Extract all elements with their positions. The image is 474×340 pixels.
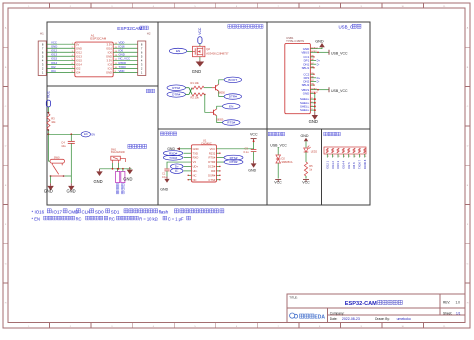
svg-text:SBU2: SBU2: [302, 83, 310, 87]
svg-text:IO13: IO13: [76, 54, 82, 58]
svg-text:10k: 10k: [51, 120, 56, 124]
svg-text:Date:: Date:: [330, 317, 338, 321]
svg-text:GND: GND: [192, 69, 201, 74]
svg-text:Drawn By:: Drawn By:: [375, 317, 390, 321]
svg-text:LED2: LED2: [311, 151, 318, 154]
svg-text:VCC: VCC: [47, 90, 51, 98]
svg-text:TYPE-C16PIN: TYPE-C16PIN: [286, 39, 304, 43]
svg-text:DTR#: DTR#: [229, 95, 237, 99]
svg-text:TXD: TXD: [193, 151, 198, 155]
svg-text:GND: GND: [160, 188, 168, 192]
svg-text:IO12 1: IO12 1: [325, 160, 329, 169]
svg-text:D-: D-: [317, 62, 320, 66]
svg-text:USB_VCC: USB_VCC: [331, 52, 348, 56]
svg-text:IO13 2: IO13 2: [331, 160, 335, 169]
svg-text:VCC: VCC: [250, 133, 258, 137]
svg-text:IO14 4: IO14 4: [342, 160, 346, 169]
svg-text:EN: EN: [229, 104, 233, 108]
svg-text:IO17: IO17: [52, 209, 62, 214]
svg-text:GND: GND: [315, 40, 324, 44]
svg-text:1/1: 1/1: [456, 311, 461, 315]
svg-text:TXD#: TXD#: [169, 156, 177, 160]
svg-text:VDD: VDD: [119, 69, 125, 73]
svg-text:G: G: [467, 263, 469, 265]
svg-text:UD+: UD+: [193, 165, 199, 169]
svg-text:TXD0 7: TXD0 7: [358, 159, 362, 169]
svg-text:GND: GND: [303, 91, 309, 95]
svg-text:Company:: Company:: [330, 311, 345, 315]
svg-text:DTR#: DTR#: [208, 160, 216, 164]
svg-text:umekoko: umekoko: [397, 317, 411, 321]
svg-text:GND: GND: [67, 189, 76, 194]
svg-text:ESP32CAM: ESP32CAM: [90, 37, 107, 41]
svg-text:DSR#: DSR#: [208, 173, 216, 177]
svg-text:TITLE:: TITLE:: [289, 296, 298, 300]
svg-text:G: G: [5, 263, 7, 265]
svg-text:GND: GND: [248, 168, 256, 172]
svg-text:IO12: IO12: [76, 50, 82, 54]
svg-text:IO15 3: IO15 3: [336, 160, 340, 169]
svg-text:IO0: IO0: [108, 50, 113, 54]
svg-text:VCC: VCC: [302, 181, 310, 185]
svg-text:IO4: IO4: [76, 71, 81, 75]
svg-text:3.3V: 3.3V: [106, 42, 112, 46]
svg-text:IO16: IO16: [106, 46, 112, 50]
svg-text:R3: R3: [51, 117, 55, 121]
svg-text:GND: GND: [301, 134, 309, 138]
svg-text:D+: D+: [175, 165, 179, 169]
svg-text:REV:: REV:: [443, 301, 450, 305]
svg-text:SD1: SD1: [111, 209, 120, 214]
svg-text:CTS#: CTS#: [208, 178, 215, 182]
svg-text:USB_VCC: USB_VCC: [331, 89, 348, 93]
svg-text:EN: EN: [176, 49, 180, 53]
svg-text:V3: V3: [193, 160, 197, 164]
svg-text:VCC: VCC: [210, 147, 216, 151]
svg-text:SBU1: SBU1: [302, 66, 310, 70]
svg-text:IO3: IO3: [108, 63, 113, 67]
svg-text:D-: D-: [175, 169, 178, 173]
svg-text:GND: GND: [106, 71, 112, 75]
svg-text:DTR#: DTR#: [229, 160, 237, 164]
svg-text:IO4 6: IO4 6: [352, 162, 356, 169]
svg-text:GND: GND: [94, 179, 103, 184]
svg-text:C = 1 μF: C = 1 μF: [168, 216, 184, 221]
svg-text:RI#: RI#: [211, 169, 216, 173]
svg-text:10u: 10u: [61, 144, 66, 148]
svg-text:GND: GND: [193, 147, 199, 151]
svg-text:SHELL: SHELL: [300, 108, 310, 112]
svg-text:CMD: CMD: [68, 209, 78, 214]
svg-text:VCC: VCC: [274, 181, 282, 185]
svg-text:GND: GND: [44, 189, 53, 194]
svg-text:D+: D+: [317, 59, 321, 63]
svg-text:IO14: IO14: [76, 63, 82, 67]
svg-text:DCD#: DCD#: [208, 165, 216, 169]
svg-text:3.3V: 3.3V: [106, 58, 112, 62]
svg-text:RTS#: RTS#: [230, 156, 238, 160]
svg-text:RC: RC: [76, 216, 82, 221]
svg-text:ESP32-CAM: ESP32-CAM: [345, 301, 377, 307]
svg-text:IO1: IO1: [108, 67, 113, 71]
svg-text:GND: GND: [309, 119, 318, 124]
svg-text:S8050: S8050: [216, 118, 224, 121]
svg-text:VCC: VCC: [198, 27, 202, 35]
svg-text:NC: NC: [193, 178, 197, 182]
svg-text:flash: flash: [159, 209, 169, 214]
svg-text:RTS#: RTS#: [172, 86, 180, 90]
svg-text:SSAJ120100: SSAJ120100: [111, 151, 126, 154]
svg-text:D+: D+: [317, 76, 321, 80]
svg-text:RTS#: RTS#: [227, 121, 235, 125]
svg-text:SD0: SD0: [95, 209, 104, 214]
svg-text:IO4: IO4: [51, 69, 56, 73]
svg-text:R1 10k: R1 10k: [191, 81, 200, 85]
svg-text:ESP32CAM: ESP32CAM: [117, 26, 142, 31]
svg-text:UD-: UD-: [193, 169, 198, 173]
svg-text:RXD: RXD: [193, 156, 199, 160]
svg-text:C4: C4: [61, 141, 65, 145]
svg-text:Q2: Q2: [206, 47, 210, 51]
svg-text:EDA: EDA: [314, 315, 325, 321]
svg-text:2022-08-23: 2022-08-23: [342, 317, 360, 321]
svg-text:SMBJ5CA: SMBJ5CA: [282, 161, 293, 164]
svg-text:D-: D-: [317, 80, 320, 84]
svg-text:R = 10 kΩ: R = 10 kΩ: [139, 216, 157, 221]
svg-text:EN: EN: [92, 134, 96, 137]
svg-text:GND: GND: [106, 54, 112, 58]
svg-text:CLK: CLK: [82, 209, 91, 214]
svg-text:GND: GND: [76, 46, 82, 50]
svg-text:RC: RC: [109, 216, 115, 221]
svg-text:Sheet:: Sheet:: [443, 311, 452, 315]
svg-text:RXD#: RXD#: [169, 151, 178, 155]
svg-text:S8050: S8050: [218, 91, 226, 94]
svg-text:IO2 5: IO2 5: [347, 162, 351, 169]
svg-text:* IO16: * IO16: [32, 209, 45, 214]
svg-text:USB_VCC: USB_VCC: [270, 143, 287, 147]
svg-text:0.1u: 0.1u: [244, 150, 250, 154]
svg-text:H2: H2: [147, 31, 151, 35]
svg-text:VBUS: VBUS: [301, 50, 309, 54]
svg-text:NC: NC: [193, 173, 197, 177]
svg-text:R232: R232: [209, 151, 216, 155]
svg-text:AO3400,C2848737: AO3400,C2848737: [206, 51, 229, 55]
svg-text:* EN: * EN: [32, 216, 40, 221]
svg-text:DTR#: DTR#: [172, 93, 180, 97]
svg-text:USB_C: USB_C: [339, 25, 354, 30]
svg-text:BOOT: BOOT: [228, 78, 237, 82]
svg-text:RTS#: RTS#: [208, 156, 215, 160]
svg-text:R2 10k: R2 10k: [191, 96, 200, 100]
svg-text:IO2: IO2: [76, 67, 81, 71]
svg-text:EN: EN: [84, 133, 88, 136]
svg-text:RXD0 8: RXD0 8: [363, 159, 367, 169]
svg-text:H1: H1: [40, 31, 44, 35]
svg-text:5V: 5V: [76, 42, 79, 46]
svg-text:GND: GND: [123, 176, 132, 181]
svg-text:1.0: 1.0: [456, 301, 461, 305]
svg-text:IO15: IO15: [76, 58, 82, 62]
